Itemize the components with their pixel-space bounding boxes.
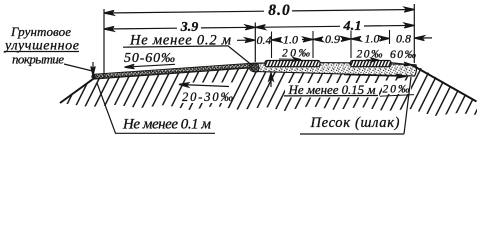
slope label 20 permille right with arrow: [357, 49, 384, 63]
svg-text:8.0: 8.0: [268, 2, 290, 19]
right embankment slope line: [412, 65, 477, 102]
leader from Pesok label to sand bed: [404, 77, 411, 134]
wheel-track pavement strip left: [261, 59, 326, 68]
dimension 0.9: [313, 37, 351, 42]
svg-text:Песок (шлак): Песок (шлак): [310, 115, 400, 131]
underline of ground 20 permille: [380, 95, 414, 97]
shoulder surface top line: [93, 63, 253, 74]
svg-text:1.0: 1.0: [365, 32, 380, 46]
svg-text:покрытие: покрытие: [12, 52, 64, 67]
leader from 0.2 label to pavement edge: [228, 46, 251, 64]
dimension 1.0 (right): [351, 36, 390, 41]
left embankment slope line: [60, 78, 94, 103]
underline of 0.15 label: [284, 95, 378, 97]
extension line right: [413, 4, 415, 63]
small dimension ticks: [272, 30, 390, 58]
arrow above 20-30 label pointing left: [179, 83, 229, 87]
svg-text:0.4: 0.4: [257, 33, 272, 47]
extension line left: [103, 9, 105, 78]
white gap band for text inside ground: [285, 81, 411, 98]
shoulder improved-soil stipple layer: [93, 63, 253, 78]
dimension 1.0 (left): [272, 37, 314, 42]
label Gruntovoe uluchshennoe pokrytie: [3, 24, 79, 67]
svg-text:4.1: 4.1: [343, 19, 362, 34]
leader from 0.1 label to crest: [97, 83, 116, 133]
outside arrow right of 0.8: [414, 36, 432, 41]
leader down arrow at crest: [91, 62, 95, 76]
shoulder surface bottom line: [94, 67, 253, 78]
sand bed left end blob: [249, 63, 259, 72]
svg-text:Не менее 0.1 м: Не менее 0.1 м: [122, 117, 211, 133]
leader from label to shoulder crest: [64, 64, 93, 71]
outside arrow left of 0.4: [237, 38, 255, 43]
slope label 20 permille left with arrow: [279, 48, 311, 62]
ground hatching: [40, 56, 477, 120]
white gap for 20-30 label: [177, 83, 238, 104]
sand bed bottom slope arrow: [344, 74, 406, 78]
arrow under 50-60 label pointing left: [125, 64, 176, 68]
underline of 0.2 label: [123, 46, 228, 47]
svg-text:0.8: 0.8: [396, 31, 411, 45]
slope label 60 permille with arrow: [390, 49, 417, 66]
sand (slag) bed stippled band: [252, 63, 417, 76]
dimension line 8.0: [104, 7, 414, 15]
svg-text:50-60‰: 50-60‰: [124, 51, 175, 66]
extension line middle split: [254, 23, 256, 63]
dimension line 3.9: [104, 25, 255, 31]
crest junction knot: [91, 74, 95, 78]
svg-text:0.9: 0.9: [325, 32, 340, 46]
underline of Pesok label: [300, 133, 404, 135]
underline of 0.1 label: [115, 132, 215, 134]
wheel-track pavement strip right: [347, 59, 399, 68]
underline of label line2: [4, 51, 79, 53]
thickness arrow 0.15: [269, 73, 274, 87]
svg-text:Грунтовое: Грунтовое: [10, 24, 71, 39]
svg-text:Не менее 0.15 м: Не менее 0.15 м: [288, 82, 376, 97]
svg-text:1.0: 1.0: [283, 32, 298, 46]
svg-text:20-30‰: 20-30‰: [182, 90, 234, 104]
dimension line 4.1: [255, 23, 414, 29]
